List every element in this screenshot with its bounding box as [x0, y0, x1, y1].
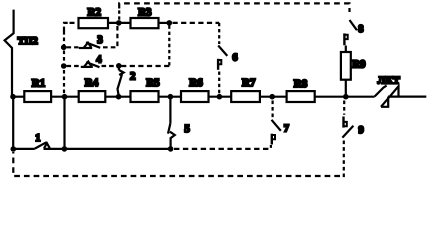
terminal p of switch 6 (narrow bold P glyph) — [217, 59, 219, 70]
wire dashed 4-row right segment from corner to switch2 node — [122, 65, 170, 67]
wire R6 to node — [209, 96, 232, 98]
wire main left to R1 — [13, 96, 24, 98]
resistor R4 — [79, 91, 106, 102]
node main at x=219.4 — [217, 94, 223, 100]
node main at x=170.4 — [168, 94, 174, 100]
svg-text:3: 3 — [97, 34, 103, 46]
svg-text:8: 8 — [358, 24, 363, 35]
wire dashed contact4 row left — [67, 65, 81, 67]
wire dashed contact4 row to switch2 node — [102, 65, 116, 67]
switch 8 blade — [350, 20, 357, 30]
wire left vertical from main line down to lower line — [12, 97, 14, 149]
node main line left — [10, 94, 16, 100]
wire dotted below switch 9 to bottom corner — [340, 141, 344, 177]
svg-text:R6: R6 — [189, 77, 203, 89]
contact 3 (blade with horn) — [79, 47, 92, 49]
resistor R7 — [231, 91, 260, 102]
wire R5 to node — [159, 96, 182, 98]
switch 7 blade — [272, 120, 281, 131]
svg-text:R9: R9 — [352, 59, 366, 71]
wire R1 to node — [51, 96, 79, 98]
wire dotted from R3 node down to 4-row corner — [168, 26, 170, 67]
wire dashed lower line right of node to switch7 corner — [174, 145, 271, 149]
wire p8 to R9 — [345, 46, 347, 53]
svg-text:2: 2 — [130, 71, 136, 83]
bottom dashed return bus — [13, 152, 340, 176]
node lower at x=64.4 — [62, 146, 68, 152]
wire R8 to node — [315, 96, 375, 98]
svg-text:R4: R4 — [85, 77, 99, 89]
wire vertical solid x=64.5 main to lower — [63, 97, 65, 149]
node junction R2-R3 — [116, 20, 122, 26]
node main at switch2 bottom — [116, 94, 122, 100]
svg-text:1: 1 — [35, 133, 40, 144]
lower line: wire left to contact 1 — [13, 148, 35, 150]
wire dashed contact3 row left — [67, 46, 79, 48]
resistor R5 — [131, 91, 159, 102]
node main at x=272.2 — [269, 94, 275, 100]
node lower line left — [11, 146, 17, 152]
resistor R8 — [287, 91, 315, 102]
wire left dashed vertical rail x=64 — [63, 31, 65, 95]
svg-text:7: 7 — [284, 124, 289, 135]
svg-text:5: 5 — [184, 123, 190, 135]
switch 6 blade — [218, 46, 227, 56]
wire top dashed bus from node above R2R3 to switch 8 — [119, 3, 349, 12]
contactor LKT triangles glyph — [381, 86, 399, 107]
svg-text:R7: R7 — [242, 77, 256, 89]
svg-text:R8: R8 — [294, 78, 308, 90]
switch 5 (vertical contact with horn) — [169, 97, 171, 124]
wire dashed vertical from top bus down to R2-R3 node — [118, 10, 120, 21]
wire R9 to main node — [345, 80, 347, 97]
resistor R1 — [24, 91, 51, 102]
contact 1 (blade with horn) — [35, 142, 47, 148]
node switch2 top — [116, 63, 122, 69]
resistor R3 — [131, 18, 159, 28]
node main at x=64.5 — [62, 94, 68, 100]
terminal b of switch 9 (narrow bold b glyph) — [342, 117, 344, 128]
wire dotted from p6 down to main line node — [218, 72, 220, 96]
svg-text:R1: R1 — [32, 77, 45, 89]
wire R3 to right node — [159, 22, 170, 24]
switch 2 (vertical contact with horn) — [118, 66, 120, 70]
contact 4 (blade with horn) — [81, 66, 93, 68]
wire dotted drop to switch 6 — [218, 23, 220, 44]
current collector TP2 symbol (zigzag) — [5, 10, 14, 96]
wire R2 to node — [108, 22, 131, 24]
svg-text:ЛКТ: ЛКТ — [378, 76, 400, 87]
resistor R9 (vertical) — [341, 52, 351, 80]
wire lower line to switch5 node — [64, 148, 170, 150]
wire dashed from switch7 up to main node — [272, 101, 274, 118]
svg-text:R3: R3 — [138, 6, 152, 18]
wire R4 to node — [105, 96, 130, 98]
switch 9 drop: dashed from main node — [343, 101, 345, 115]
node on rail at contact 3 row — [61, 45, 67, 51]
svg-text:R5: R5 — [146, 77, 160, 89]
node lower at x=170.6 — [168, 146, 174, 152]
wire dashed lead into R2 — [70, 22, 79, 24]
svg-text:4: 4 — [96, 55, 102, 66]
svg-text:R2: R2 — [88, 6, 102, 18]
node junction right of R3 — [167, 20, 173, 26]
wire main right end — [388, 95, 426, 97]
resistor R6 — [181, 91, 209, 102]
node A top-left corner of R2 row — [64, 23, 70, 31]
contactor LKT blade — [375, 86, 387, 97]
svg-text:6: 6 — [232, 52, 237, 63]
terminal p of switch 7 (narrow bold P glyph) — [271, 134, 273, 145]
wire dashed contact3 row right to corner up — [103, 26, 117, 47]
node main at x=345.8 — [343, 94, 349, 100]
svg-text:9: 9 — [359, 125, 364, 136]
node on rail at contact 4 row — [61, 63, 67, 69]
resistor R2 — [79, 18, 109, 28]
svg-text:ТП2: ТП2 — [18, 36, 38, 47]
terminal p of switch 8 (narrow bold P glyph) — [343, 33, 345, 45]
wire R7 to node — [260, 96, 287, 98]
wire dashed from R3 node to corner above switch 6 — [173, 22, 220, 24]
switch 9 blade — [342, 126, 353, 138]
